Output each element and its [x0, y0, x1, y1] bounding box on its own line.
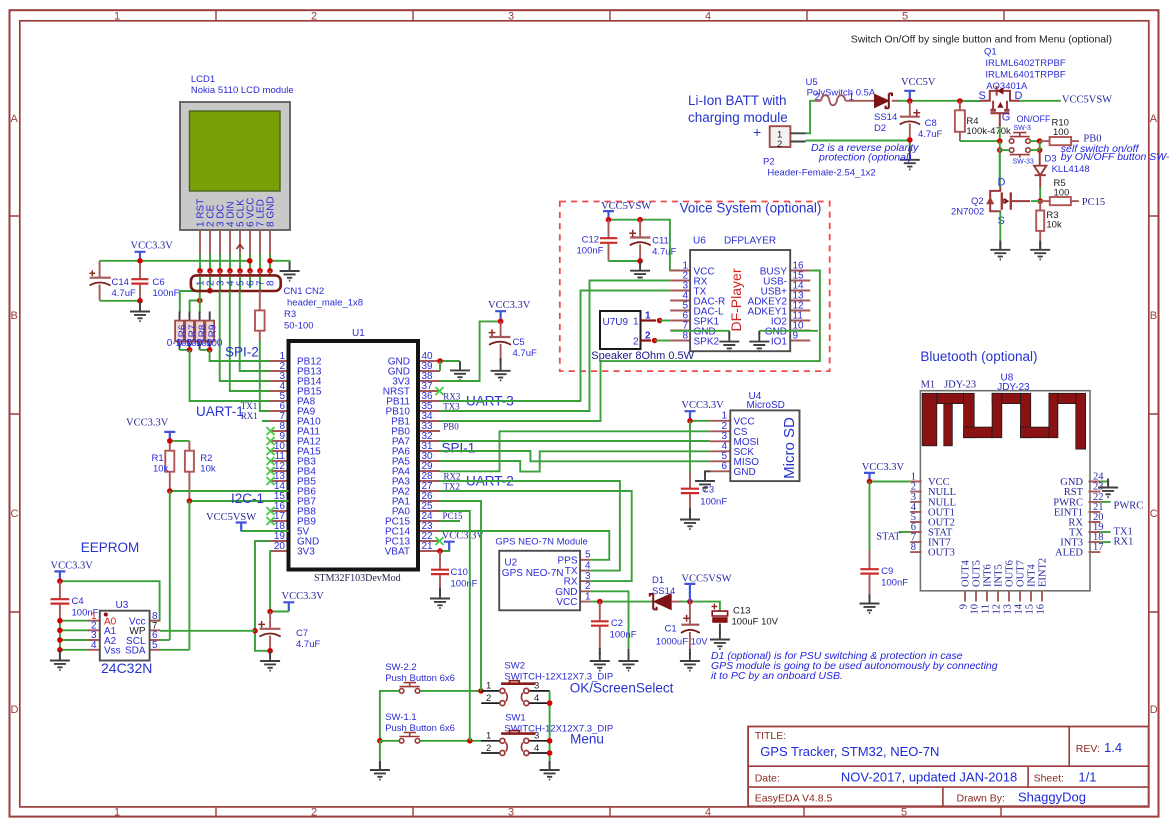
svg-text:2: 2	[486, 693, 491, 704]
capacitor C14 polarized	[90, 261, 111, 301]
junction dot SW3 left	[997, 138, 1003, 144]
svg-text:Nokia 5110 LCD module: Nokia 5110 LCD module	[191, 85, 294, 96]
svg-text:Sheet:: Sheet:	[1034, 773, 1064, 785]
U6 right pin numbers	[793, 261, 805, 342]
resistor R6	[175, 321, 184, 342]
frame column numbers bottom	[114, 806, 907, 818]
C1 ground stub	[689, 649, 691, 655]
R1 lead bottom	[169, 472, 171, 491]
diode D3 KLL4148	[1034, 141, 1046, 188]
svg-text:OUT6: OUT6	[1005, 560, 1016, 587]
svg-text:C5: C5	[513, 337, 525, 348]
svg-text:B: B	[1150, 310, 1157, 322]
ground below C10	[430, 590, 450, 609]
R2 lead bottom	[188, 472, 190, 501]
svg-text:D: D	[1150, 704, 1158, 716]
svg-text:C: C	[11, 508, 19, 520]
switch SW1 DIP pin lines	[481, 741, 550, 753]
wire D2 to VCC5V node	[898, 100, 960, 102]
junction dot C7 bottom	[267, 648, 273, 654]
wire UART2 TX2 pin27 to GPS RX	[440, 491, 632, 581]
wire VCC down to C3	[689, 421, 691, 472]
svg-text:15: 15	[1025, 604, 1036, 615]
wire D3 to R5 junction	[1039, 187, 1041, 201]
svg-text:TITLE:: TITLE:	[755, 730, 787, 742]
wire RX1 stub pin18	[1100, 541, 1110, 543]
resistor R7	[185, 321, 194, 342]
net flag chevron on pin5	[237, 245, 244, 250]
svg-text:C4: C4	[72, 596, 84, 607]
switch SW1 DIP body	[500, 731, 536, 756]
junction dots A0-Vss	[57, 618, 63, 653]
svg-text:D1: D1	[652, 575, 664, 586]
svg-text:CN1 CN2: CN1 CN2	[284, 286, 325, 297]
frame column numbers top	[114, 11, 908, 23]
svg-text:2: 2	[633, 337, 639, 348]
wire U2 GND to ground	[590, 591, 628, 650]
resistor R3	[255, 310, 265, 330]
svg-text:100nF: 100nF	[451, 579, 478, 590]
speaker pin1 line	[641, 319, 657, 321]
svg-text:C: C	[1150, 508, 1158, 520]
ground stub SW-1.1	[379, 762, 381, 770]
C10 ground stub	[439, 588, 441, 594]
wire P2 pin1 up to polyswitch	[806, 101, 815, 134]
wire U6 pin7 GND internal	[671, 330, 730, 332]
svg-text:1000uF 10V: 1000uF 10V	[656, 637, 708, 648]
svg-text:A: A	[11, 113, 19, 125]
capacitor C1 polarized lead	[689, 602, 691, 625]
diode D2 SS14	[875, 94, 901, 109]
svg-text:2N7002: 2N7002	[951, 207, 984, 218]
wire Q2 out to R5 node	[1031, 200, 1040, 202]
U6 pin lines left	[670, 271, 690, 341]
ground below C6	[130, 303, 150, 322]
U1 left pin names	[297, 357, 322, 558]
svg-text:OUT4: OUT4	[961, 559, 972, 587]
svg-text:3: 3	[508, 11, 514, 23]
resistor R7 leads	[189, 312, 191, 350]
svg-text:4.7uF: 4.7uF	[112, 288, 136, 299]
ground U4 pin6	[695, 472, 715, 491]
wire SW-1.1 left to ground	[380, 741, 399, 763]
svg-text:header_male_1x8: header_male_1x8	[287, 298, 363, 309]
C9 ground stub	[869, 596, 871, 600]
svg-text:LCD1: LCD1	[191, 74, 215, 85]
svg-text:C7: C7	[296, 628, 308, 639]
U6 pin10 ground stub	[758, 331, 760, 335]
svg-text:P2: P2	[763, 157, 775, 168]
junction dot rail pin8	[267, 258, 273, 264]
junction dot BT VCC	[867, 479, 873, 485]
svg-text:STAT: STAT	[876, 532, 901, 543]
U2 GND ground stub	[628, 649, 630, 655]
wire SDA R2 to pin15	[189, 500, 288, 502]
ground below C1	[680, 652, 700, 671]
U8 right pin names	[1053, 477, 1083, 559]
speaker pin2 line	[641, 339, 652, 341]
C5 ground stub	[500, 358, 502, 364]
svg-text:100nF: 100nF	[700, 497, 727, 508]
svg-text:VCC3.3V: VCC3.3V	[282, 591, 325, 602]
svg-text:U1: U1	[352, 328, 365, 339]
wire C14 to C6 bottom	[100, 300, 140, 302]
svg-text:9: 9	[959, 604, 970, 609]
wire pin25 to SW1	[440, 511, 470, 741]
svg-text:Header-Female-2.54_1x2: Header-Female-2.54_1x2	[767, 168, 875, 179]
resistor R3 10k	[1036, 211, 1044, 231]
U6 DFPLAYER body	[690, 250, 790, 351]
junction dot C6 bottom	[137, 298, 143, 304]
svg-text:100uF 10V: 100uF 10V	[732, 617, 779, 628]
svg-text:VCC5VSW: VCC5VSW	[1062, 94, 1112, 105]
svg-text:1.4: 1.4	[1104, 740, 1122, 755]
wire pin1 down to R8	[199, 291, 201, 313]
ground U2 GND	[619, 652, 639, 671]
U6 pin7 ground stub	[728, 331, 730, 335]
svg-text:VCC: VCC	[734, 417, 755, 428]
svg-text:SPI-1: SPI-1	[442, 441, 476, 456]
wire PC15 stub pin24	[440, 520, 460, 522]
wire U8 pin24 GND	[1100, 482, 1108, 485]
frame column ticks top	[216, 10, 1004, 21]
junction dot R6R7 bottom	[187, 347, 193, 353]
no-connect X pin 22	[436, 537, 444, 545]
svg-text:13: 13	[1003, 604, 1014, 615]
power flag VCC3.3V EEPROM	[54, 571, 65, 580]
junction dot pin1 branch	[197, 298, 203, 304]
junction dot SW1 pin4	[547, 750, 553, 756]
svg-text:REV:: REV:	[1076, 743, 1100, 755]
svg-text:1: 1	[486, 730, 491, 741]
svg-text:8: 8	[911, 542, 916, 553]
junction dot VCC5VSW gps	[687, 599, 693, 605]
U4 pin lines	[710, 421, 731, 472]
wire VBAT to VCC	[440, 550, 449, 552]
svg-text:5: 5	[585, 550, 591, 561]
svg-text:12: 12	[992, 604, 1003, 615]
wire VCC5V to Q1 source	[960, 100, 981, 102]
Q2 drain wire from SW33	[999, 148, 1001, 187]
svg-text:20: 20	[274, 541, 286, 552]
ground below C7	[260, 652, 280, 671]
svg-text:D2: D2	[874, 123, 886, 134]
junction dot pin40	[437, 358, 443, 364]
wire R4 to SW3 junction	[960, 140, 1000, 142]
svg-text:2: 2	[311, 11, 317, 23]
svg-text:SW1: SW1	[505, 713, 526, 724]
svg-text:24C32N: 24C32N	[101, 660, 152, 676]
svg-text:C9: C9	[881, 566, 893, 577]
wire pin19 GND down	[255, 541, 270, 651]
svg-text:100nF: 100nF	[153, 288, 180, 299]
C3 top lead	[689, 472, 691, 489]
svg-text:6: 6	[721, 461, 727, 472]
power flag VCC5VSW voice	[603, 211, 614, 220]
speaker U7U9 body	[600, 311, 641, 349]
wire SDA down to EEPROM	[188, 501, 190, 650]
svg-text:VCC3.3V: VCC3.3V	[488, 300, 531, 311]
C11 ground stub	[639, 261, 641, 265]
svg-text:INT5: INT5	[994, 564, 1005, 587]
resistor R1 lead top	[169, 441, 171, 451]
svg-text:G: G	[1002, 112, 1011, 124]
svg-text:B: B	[11, 310, 18, 322]
svg-text:4.7uF: 4.7uF	[296, 639, 320, 650]
wire TX1 stub pin19	[1100, 531, 1110, 533]
resistor R4 lead top	[959, 101, 961, 110]
svg-text:R2: R2	[200, 453, 212, 464]
junction dot C5 top	[498, 319, 504, 325]
junction dot 3V3 C7	[267, 609, 273, 615]
wire pin39 up to pin40	[439, 361, 441, 371]
svg-text:10k: 10k	[153, 464, 169, 475]
resistor R8	[195, 321, 204, 342]
junction dot U4 VCC	[687, 418, 693, 424]
P2 pin stubs	[790, 133, 805, 141]
svg-text:9: 9	[793, 331, 799, 342]
svg-text:EasyEDA V4.8.5: EasyEDA V4.8.5	[755, 793, 833, 805]
resistor R2	[185, 451, 194, 472]
svg-text:PB0: PB0	[443, 421, 459, 431]
ground U8 pin24	[1098, 479, 1118, 498]
C8 plus sign	[913, 109, 920, 116]
svg-text:SS14: SS14	[874, 112, 897, 123]
wire SW2 pin3 pin4 to gnd rail	[549, 691, 551, 763]
U2 GPS NEO-7N body	[499, 551, 580, 611]
wire VCC3.3 rail to pin6	[100, 260, 250, 262]
svg-text:PC15: PC15	[443, 511, 464, 521]
wire R3 to U1 pin6	[260, 340, 289, 411]
svg-text:GPS Tracker, STM32, NEO-7N: GPS Tracker, STM32, NEO-7N	[760, 744, 939, 759]
junction dot header bottom pin2	[207, 288, 213, 294]
capacitor C12	[600, 220, 617, 261]
power flag VCC3.3V bluetooth	[864, 473, 875, 482]
svg-text:OUT5: OUT5	[972, 560, 983, 587]
svg-text:D: D	[998, 177, 1006, 189]
svg-text:10k: 10k	[200, 464, 216, 475]
svg-text:4.7uF: 4.7uF	[918, 129, 942, 140]
svg-text:EINT2: EINT2	[1038, 558, 1049, 587]
svg-text:1: 1	[633, 317, 639, 328]
svg-text:Li-Ion BATT with: Li-Ion BATT with	[688, 93, 787, 108]
svg-text:M1: M1	[921, 380, 936, 391]
wire SPI1 SCK pin30 to U4	[440, 451, 710, 471]
resistor R9	[205, 321, 214, 342]
resistor R9 leads	[209, 312, 211, 350]
svg-text:2: 2	[311, 806, 317, 818]
junction dot SW2 pin4	[547, 700, 553, 706]
svg-text:IRLML6402TRPBF: IRLML6402TRPBF	[985, 58, 1065, 69]
resistor R10	[1040, 137, 1079, 145]
junction dot C11 top	[637, 217, 643, 223]
no-connect X pins 16-17	[267, 507, 275, 525]
LCD module LCD1 body	[180, 102, 290, 230]
svg-text:PC15: PC15	[1082, 197, 1105, 208]
power flag VCC3.3V above R1	[164, 432, 175, 441]
wire VCC down to C9	[869, 482, 871, 552]
no-connect X pins 8-13	[267, 427, 275, 485]
svg-text:4: 4	[585, 560, 591, 571]
svg-text:ShaggyDog: ShaggyDog	[1018, 790, 1086, 805]
junction dot WP wire	[252, 628, 258, 634]
svg-text:RX2: RX2	[444, 472, 461, 482]
U4 pin numbers	[721, 411, 727, 473]
wire SPI1 MOSI pin32 to U4	[440, 440, 710, 442]
wire R6 top to header dot	[180, 291, 210, 313]
svg-text:it to PC by an onboard USB.: it to PC by an onboard USB.	[711, 670, 843, 682]
wire SW-2.2 left to down rail	[380, 691, 399, 741]
C14 plus sign	[90, 270, 96, 276]
svg-text:RX1: RX1	[1114, 537, 1134, 548]
svg-text:I2C-1: I2C-1	[231, 491, 264, 506]
U2 pin lines	[580, 560, 590, 602]
wire R6R7 to U1 pin5	[190, 350, 289, 401]
wire VCC5VSW rail to U6 VCC	[609, 220, 679, 271]
junction dot SW2 pin1	[478, 688, 484, 694]
wire SW3 junction down	[999, 141, 1001, 186]
voice system dashed box	[560, 202, 830, 372]
svg-text:UART-1: UART-1	[196, 404, 244, 419]
ground below C11	[630, 262, 650, 281]
CN1 pin numbers	[195, 280, 276, 286]
wire SCL down to EEPROM	[169, 491, 171, 640]
wire R8R9 bottoms joined	[200, 349, 210, 351]
junction dot C12 top	[606, 217, 612, 223]
svg-text:MicroSD: MicroSD	[747, 400, 785, 411]
svg-text:100: 100	[1054, 188, 1070, 199]
U4 pin names	[734, 417, 760, 479]
capacitor C13 body	[712, 611, 727, 634]
capacitor C2	[591, 602, 609, 650]
capacitor C4	[51, 581, 70, 621]
resistor R6 leads	[179, 312, 181, 350]
wire C6 bottom stub	[139, 301, 141, 305]
svg-text:Vss: Vss	[104, 646, 121, 657]
R6-R9 overlapping value labels	[167, 338, 223, 349]
power flag VCC3.3V microsd	[685, 411, 696, 420]
svg-text:SDA: SDA	[125, 646, 146, 657]
C5 plus sign	[489, 329, 496, 336]
svg-text:SW-1.1: SW-1.1	[385, 712, 417, 723]
svg-text:1: 1	[114, 806, 120, 818]
svg-text:RX3: RX3	[443, 391, 461, 401]
wire A2 stub	[60, 639, 89, 641]
Q2 ground stub	[999, 241, 1001, 249]
ground below C8	[900, 151, 920, 170]
wire VCC to U4 pin1	[690, 420, 710, 422]
wire U2 VCC to D1	[590, 601, 654, 603]
svg-text:JDY-23: JDY-23	[997, 382, 1030, 393]
svg-text:U6: U6	[693, 236, 706, 247]
svg-text:16: 16	[1036, 604, 1047, 615]
svg-text:protection (optional): protection (optional)	[818, 152, 912, 164]
ground U6 pin7	[719, 333, 739, 352]
C11 plus sign	[629, 230, 636, 237]
U8 right pin numbers	[1093, 472, 1104, 554]
ground stub SW right	[549, 762, 551, 770]
Q1 gate arrow	[997, 102, 1003, 108]
svg-text:1/1: 1/1	[1078, 770, 1096, 785]
svg-text:50-100: 50-100	[284, 321, 314, 332]
resistor R3 lead top	[259, 291, 261, 311]
power flag VCC3.3V near C7	[283, 602, 294, 611]
svg-text:R3: R3	[284, 309, 296, 320]
wires pins through header	[200, 277, 260, 291]
wire speaker pin2 to SPK2	[655, 340, 671, 342]
no-connect X pin 37	[436, 387, 444, 395]
svg-text:VCC3.3V: VCC3.3V	[862, 462, 905, 473]
svg-text:Bluetooth (optional): Bluetooth (optional)	[920, 349, 1037, 364]
capacitor C3	[681, 486, 699, 510]
svg-text:21: 21	[422, 541, 434, 552]
ground below C3	[680, 511, 700, 530]
svg-text:INT6: INT6	[983, 564, 994, 587]
wire pin8 to ground	[270, 261, 290, 264]
capacitor C5 polarized	[489, 321, 511, 361]
title block dividers	[748, 727, 1149, 807]
transistor Q1 P-MOSFET	[980, 86, 1020, 128]
svg-text:Drawn By:: Drawn By:	[957, 793, 1005, 805]
wire A0 stub	[60, 620, 89, 622]
junction dot VCC5V	[907, 98, 913, 104]
speaker pin2 dot	[652, 338, 658, 344]
wire Q2 source to ground	[999, 211, 1001, 241]
ground stub below Vss	[59, 650, 61, 654]
svg-text:charging module: charging module	[688, 110, 788, 125]
svg-text:VCC: VCC	[556, 597, 577, 608]
push button SW-1.1	[399, 733, 420, 744]
svg-text:1: 1	[114, 11, 120, 23]
svg-text:DFPLAYER: DFPLAYER	[724, 236, 776, 247]
svg-text:4: 4	[91, 640, 97, 651]
wire VCC sym to dot	[270, 611, 289, 613]
svg-text:10: 10	[970, 604, 981, 615]
Q2 gate arrow	[1005, 199, 1010, 204]
svg-text:+: +	[753, 124, 761, 140]
wire pin3 riser down	[220, 291, 289, 381]
svg-text:3: 3	[534, 681, 539, 692]
junction dot rail/VCC	[137, 258, 143, 264]
U3 pin lines right	[150, 621, 161, 650]
junction dot R1 bottom	[167, 488, 173, 494]
wire BUSY to U1 pin34	[440, 271, 820, 422]
svg-text:17: 17	[1093, 542, 1104, 553]
capacitor C7 polarized	[259, 612, 280, 651]
svg-text:RX1: RX1	[241, 411, 258, 421]
junction dot C2	[597, 599, 603, 605]
svg-text:8: 8	[265, 280, 276, 286]
wire SW-2.2 right to SW2 pin1	[420, 690, 481, 692]
svg-text:SW-33: SW-33	[1013, 159, 1034, 166]
U4 MicroSD body	[730, 410, 799, 481]
svg-text:SPI-2: SPI-2	[225, 345, 259, 360]
U8 bottom pin numbers rotated	[959, 603, 1047, 614]
header CN1 CN2 body	[191, 275, 281, 291]
svg-text:1: 1	[585, 591, 591, 602]
svg-text:2: 2	[777, 139, 782, 150]
R3 ground stub	[1039, 241, 1041, 249]
wire P2 pin2 to C8 bottom	[806, 141, 910, 148]
junction dot R2 bottom	[187, 498, 193, 504]
ground at CN1 pin8	[280, 262, 300, 281]
capacitor C6	[131, 263, 148, 301]
wire speaker pin1 to SPK1	[660, 320, 671, 322]
svg-text:Date:: Date:	[755, 773, 780, 785]
svg-text:D: D	[11, 704, 19, 716]
junction dot SW1 pin1	[467, 738, 473, 744]
wire VCC to R2 top	[170, 440, 190, 442]
